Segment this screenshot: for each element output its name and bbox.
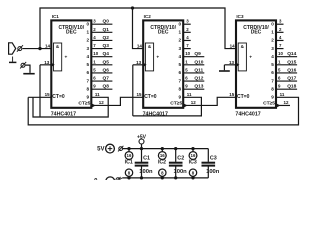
svg-text:10: 10 xyxy=(278,51,283,56)
wire: IC2 pin 13 drop to feedback bus xyxy=(133,65,143,116)
IC3 output 2 pin 4 stub (n.c.) xyxy=(276,35,284,41)
IC3 supply pin 8 xyxy=(189,169,196,178)
svg-text:11: 11 xyxy=(187,92,192,97)
svg-text:2: 2 xyxy=(178,38,181,43)
node +5V terminal xyxy=(137,135,147,149)
svg-text:CT=0: CT=0 xyxy=(237,94,250,100)
IC1 output 1 pin 2 stub, net Q1 xyxy=(91,27,112,33)
svg-text:Q3: Q3 xyxy=(103,43,110,49)
svg-text:0: 0 xyxy=(87,21,90,26)
counter IC1 74HC4017 IEC symbol box xyxy=(51,20,91,107)
svg-text:14: 14 xyxy=(230,44,236,49)
wire: 0V rail xyxy=(120,178,209,179)
svg-text:C3: C3 xyxy=(210,155,217,161)
svg-text:Q6: Q6 xyxy=(103,67,110,73)
svg-text:14: 14 xyxy=(137,44,143,49)
wire: reset bus from IC3 Q9 pin 11 back to IC1 pin 15 xyxy=(28,97,298,125)
svg-text:4: 4 xyxy=(87,54,90,59)
svg-text:11: 11 xyxy=(95,92,100,97)
IC2 pin 12 carry CT&gt;=5 output wedge xyxy=(183,100,196,108)
IC1 output 7 pin 6 stub, net Q7 xyxy=(91,76,112,82)
svg-text:9: 9 xyxy=(271,95,274,100)
svg-text:13: 13 xyxy=(44,60,50,65)
svg-text:8: 8 xyxy=(178,86,181,91)
svg-text:+5V: +5V xyxy=(137,135,147,141)
IC2 output 6 pin 5 stub, net Q11 xyxy=(183,67,204,73)
svg-text:13: 13 xyxy=(136,60,142,65)
IC2 output 3 pin 7 stub (n.c.) xyxy=(183,43,191,49)
svg-text:0: 0 xyxy=(271,21,274,26)
svg-text:12: 12 xyxy=(99,100,105,105)
IC2 supply pin 16 xyxy=(158,149,166,166)
svg-text:15: 15 xyxy=(229,92,235,97)
counter IC3 reference label xyxy=(236,14,244,19)
svg-text:1: 1 xyxy=(87,30,90,35)
connector pin K1b (ground) xyxy=(20,62,26,69)
svg-text:3: 3 xyxy=(271,46,274,51)
svg-text:8: 8 xyxy=(87,86,90,91)
wire: clock input to IC1 pin 14 xyxy=(22,48,51,50)
capacitor C3 100n xyxy=(202,149,220,178)
svg-text:74HC4017: 74HC4017 xyxy=(235,111,260,117)
svg-text:Q15: Q15 xyxy=(287,59,296,65)
svg-text:10: 10 xyxy=(93,51,98,56)
IC2 part number label 74HC4017 xyxy=(143,111,168,117)
IC1 output 2 pin 4 stub, net Q2 xyxy=(91,35,112,41)
svg-text:16: 16 xyxy=(127,153,132,158)
svg-text:12: 12 xyxy=(191,100,197,105)
IC1 pin 12 carry CT&gt;=5 output wedge xyxy=(91,100,104,108)
IC2 output 2 pin 4 stub (n.c.) xyxy=(183,35,191,41)
wire: IC3 carry pin 12 stub xyxy=(276,104,290,106)
svg-text:CT≥5: CT≥5 xyxy=(263,101,275,107)
IC3 pin 15 reset CT=0 label xyxy=(229,92,235,97)
svg-text:8: 8 xyxy=(271,86,274,91)
svg-text:Q12: Q12 xyxy=(194,76,203,82)
IC3 part number label 74HC4017 xyxy=(235,111,260,117)
IC3 output 3 pin 7 stub (n.c.) xyxy=(276,43,284,49)
svg-text:+: + xyxy=(156,55,159,60)
counter IC2 reference label xyxy=(144,14,152,19)
supply terminal 0V input xyxy=(94,177,115,186)
svg-text:7: 7 xyxy=(87,78,90,83)
svg-text:Q0: Q0 xyxy=(103,19,110,25)
svg-text:11: 11 xyxy=(280,92,285,97)
IC3 output 8 pin 9 stub, net Q18 xyxy=(276,84,297,90)
IC3 supply pin 16 xyxy=(189,149,197,166)
wire: IC1 pin 13 drop to feedback bus xyxy=(40,65,51,117)
wire: IC2 carry pin 12 to IC3 reset pin 15 xyxy=(183,97,236,105)
svg-text:9: 9 xyxy=(178,95,181,100)
svg-text:Q14: Q14 xyxy=(287,51,296,57)
junction dots on 0V rail xyxy=(127,176,194,179)
svg-text:Q18: Q18 xyxy=(287,84,296,90)
IC1 output 8 pin 9 stub, net Q8 xyxy=(91,84,112,90)
svg-text:+: + xyxy=(249,55,252,60)
capacitor C2 100n xyxy=(169,149,187,178)
IC2 pin 14 CP0 clock input stub xyxy=(137,44,143,49)
svg-text:CT≥5: CT≥5 xyxy=(78,101,90,107)
svg-text:2: 2 xyxy=(87,38,90,43)
svg-text:IC3: IC3 xyxy=(189,160,197,166)
wire: IC1 carry pin 12 to IC2 reset pin 15 xyxy=(91,97,143,105)
wire: clock bus feeding IC2 and IC3 pin 14 xyxy=(40,8,236,49)
svg-text:Q5: Q5 xyxy=(103,59,110,65)
IC1 part number label 74HC4017 xyxy=(51,111,76,117)
IC3 output 0 pin 3 stub (n.c.) xyxy=(276,19,284,25)
svg-text:CT=0: CT=0 xyxy=(144,94,157,100)
supply terminal 5V input xyxy=(97,144,114,153)
svg-text:16: 16 xyxy=(191,153,196,158)
IC3 pin 11 label (output 9) xyxy=(280,92,285,97)
svg-text:5: 5 xyxy=(178,62,181,67)
wire: IC1 pin 15 stub xyxy=(28,96,51,98)
svg-text:Q1: Q1 xyxy=(103,27,110,33)
svg-text:Q4: Q4 xyxy=(103,51,110,57)
IC2 output 7 pin 6 stub, net Q12 xyxy=(183,76,204,82)
svg-text:Q17: Q17 xyxy=(287,76,296,82)
wire: IC2 Q9 pin 11 feedback to IC2 pin 13 xyxy=(133,97,202,116)
svg-text:6: 6 xyxy=(87,70,90,75)
wire: IC3 pin 13 to ground xyxy=(224,65,236,70)
IC2 pin 11 label (output 9) xyxy=(187,92,192,97)
IC1 output 6 pin 5 stub, net Q6 xyxy=(91,67,112,73)
svg-text:IC1: IC1 xyxy=(52,14,60,19)
wire: IC1 Q9 pin 11 feedback to IC1 pins 13/15 xyxy=(33,97,108,117)
svg-text:Q7: Q7 xyxy=(103,76,110,82)
svg-text:IC1: IC1 xyxy=(125,160,133,166)
svg-text:1: 1 xyxy=(271,30,274,35)
svg-text:C2: C2 xyxy=(177,155,184,161)
node: clock junction at IC1 pin 14 xyxy=(38,47,41,50)
svg-text:15: 15 xyxy=(136,92,142,97)
connector pin (supply +) xyxy=(118,146,123,152)
connector pin K1a (clock input) xyxy=(17,45,23,52)
svg-text:1: 1 xyxy=(178,30,181,35)
IC1 output 5 pin 1 stub, net Q5 xyxy=(91,59,112,65)
IC3 pin 12 carry CT&gt;=5 output wedge xyxy=(276,100,289,108)
svg-text:Q2: Q2 xyxy=(103,35,110,41)
svg-text:9: 9 xyxy=(87,95,90,100)
IC3 pin 14 CP0 clock input stub xyxy=(230,44,236,49)
svg-text:10: 10 xyxy=(185,51,190,56)
svg-text:6: 6 xyxy=(271,70,274,75)
svg-text:7: 7 xyxy=(271,78,274,83)
svg-text:4: 4 xyxy=(271,54,274,59)
IC1 pin 15 reset CT=0 label xyxy=(45,92,51,97)
svg-text:IC2: IC2 xyxy=(144,14,152,19)
IC1 pin 11 label (output 9) xyxy=(95,92,100,97)
IC1 supply pin 16 xyxy=(125,149,133,166)
input signal arrow symbol xyxy=(9,43,16,54)
svg-text:DEC: DEC xyxy=(158,30,169,36)
svg-text:CT≥5: CT≥5 xyxy=(170,101,182,107)
IC2 pin 15 reset CT=0 label xyxy=(136,92,142,97)
wire: K1b to ground xyxy=(25,65,30,73)
svg-text:Q13: Q13 xyxy=(194,84,203,90)
svg-text:6: 6 xyxy=(178,70,181,75)
svg-text:C1: C1 xyxy=(143,155,150,161)
svg-text:Q11: Q11 xyxy=(194,67,203,73)
svg-text:13: 13 xyxy=(229,60,235,65)
svg-text:12: 12 xyxy=(284,100,290,105)
svg-text:+: + xyxy=(64,55,67,60)
connector pin (supply -) xyxy=(115,177,120,183)
svg-text:100n: 100n xyxy=(174,169,188,175)
svg-text:7: 7 xyxy=(178,78,181,83)
IC1 pin 14 CP0 clock input stub xyxy=(45,44,51,49)
IC1 output 4 pin 10 stub, net Q4 xyxy=(91,51,112,57)
IC2 output 0 pin 3 stub (n.c.) xyxy=(183,19,191,25)
svg-text:DEC: DEC xyxy=(66,30,77,36)
IC3 output 1 pin 2 stub (n.c.) xyxy=(276,27,284,33)
IC3 output 5 pin 1 stub, net Q15 xyxy=(276,59,297,65)
counter IC3 74HC4017 IEC symbol box xyxy=(236,20,276,107)
svg-text:100n: 100n xyxy=(139,169,153,175)
IC2 output 4 pin 10 stub, net Q9 xyxy=(183,51,204,57)
IC3 output 4 pin 10 stub, net Q14 xyxy=(276,51,297,57)
IC2 supply pin 8 xyxy=(159,169,166,178)
svg-text:Q16: Q16 xyxy=(287,67,296,73)
IC1 output 0 pin 3 stub, net Q0 xyxy=(91,19,112,25)
svg-text:3: 3 xyxy=(87,46,90,51)
svg-text:5V: 5V xyxy=(97,147,104,153)
ground bar (IC3 pin 13) xyxy=(219,70,230,72)
ground bar (input return) xyxy=(23,73,34,75)
svg-text:Q8: Q8 xyxy=(103,84,110,90)
svg-text:Q10: Q10 xyxy=(194,59,203,65)
node: clock bus junction for IC2 xyxy=(131,6,134,9)
capacitor C1 100n xyxy=(135,149,153,178)
counter IC2 74HC4017 IEC symbol box xyxy=(143,20,183,107)
svg-text:14: 14 xyxy=(45,44,51,49)
wire: +5V rail xyxy=(123,148,209,150)
svg-text:15: 15 xyxy=(45,92,51,97)
IC1 pin 13 CP1 enable stub wedge xyxy=(44,60,54,67)
IC1 supply pin 8 xyxy=(125,169,132,178)
svg-text:IC3: IC3 xyxy=(236,14,244,19)
ground symbol (input side) xyxy=(9,57,16,63)
counter IC1 reference label xyxy=(52,14,60,19)
IC2 output 8 pin 9 stub, net Q13 xyxy=(183,84,204,90)
IC2 pin 13 CP1 enable stub wedge xyxy=(136,60,146,67)
svg-text:4: 4 xyxy=(178,54,181,59)
IC2 output 5 pin 1 stub, net Q10 xyxy=(183,59,204,65)
IC3 output 7 pin 6 stub, net Q17 xyxy=(276,76,297,82)
IC1 output 3 pin 7 stub, net Q3 xyxy=(91,43,112,49)
IC3 output 6 pin 5 stub, net Q16 xyxy=(276,67,297,73)
svg-text:IC2: IC2 xyxy=(158,160,166,166)
IC2 output 1 pin 2 stub (n.c.) xyxy=(183,27,191,33)
svg-text:3: 3 xyxy=(178,46,181,51)
svg-text:0: 0 xyxy=(178,21,181,26)
svg-text:16: 16 xyxy=(160,153,165,158)
svg-text:100n: 100n xyxy=(206,169,220,175)
svg-text:CT=0: CT=0 xyxy=(52,94,65,100)
svg-text:DEC: DEC xyxy=(251,30,262,36)
svg-text:Q9: Q9 xyxy=(194,51,201,57)
svg-text:5: 5 xyxy=(271,62,274,67)
svg-text:5: 5 xyxy=(87,62,90,67)
svg-text:2: 2 xyxy=(271,38,274,43)
IC3 pin 13 CP1 enable stub wedge xyxy=(229,60,239,67)
junction dots on +5V rail xyxy=(127,147,194,150)
